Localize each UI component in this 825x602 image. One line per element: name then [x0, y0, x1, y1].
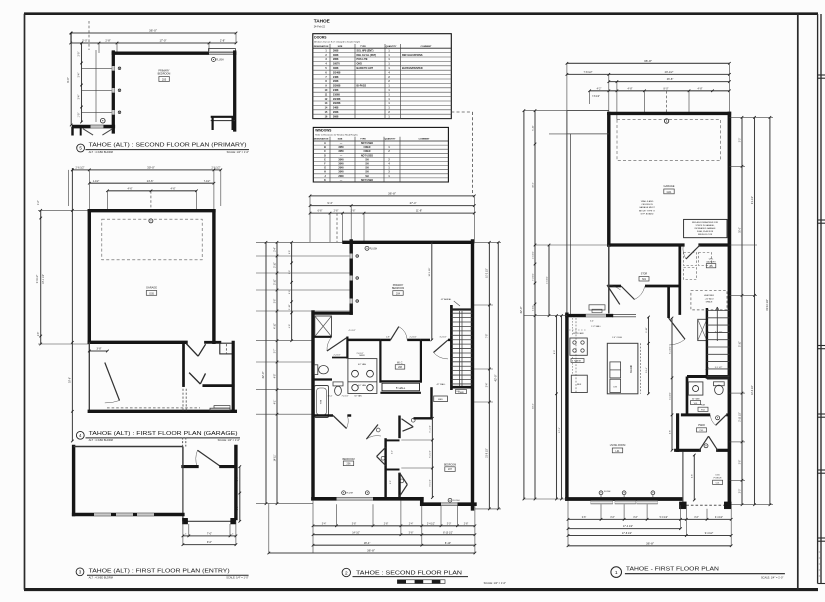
plan2 bottom wall step — [422, 499, 475, 506]
svg-text:2'-6 1/2": 2'-6 1/2" — [212, 167, 221, 170]
svg-text:36'-8": 36'-8" — [646, 541, 654, 545]
plan5 railing bottom right — [211, 117, 235, 130]
svg-text:1-1/2": 1-1/2" — [93, 180, 100, 183]
svg-text:5'-0 1/2": 5'-0 1/2" — [660, 517, 668, 519]
svg-text:TAHOE (ALT) : SECOND FLOOR PLA: TAHOE (ALT) : SECOND FLOOR PLAN (PRIMARY… — [89, 143, 247, 149]
plan4 mudroom left wall — [182, 344, 185, 386]
svg-text:3'-8": 3'-8" — [96, 347, 101, 351]
svg-text:2'-8 1/2": 2'-8 1/2" — [356, 353, 363, 355]
svg-text:MED: MED — [438, 399, 443, 401]
svg-text:3'-6 1/2": 3'-6 1/2" — [430, 479, 432, 487]
svg-text:3'-1 1/2": 3'-1 1/2" — [715, 367, 723, 369]
plan1 hvac dashed box — [691, 291, 727, 310]
svg-text:18'-4": 18'-4" — [364, 541, 371, 545]
svg-text:STOR: STOR — [641, 274, 648, 276]
svg-text:3'-3": 3'-3" — [289, 290, 291, 294]
svg-text:3'-6": 3'-6" — [610, 517, 615, 519]
plan2 bottom dims row A — [312, 523, 477, 527]
plan4 steps to house — [210, 406, 230, 411]
plan1 left dim col I — [519, 109, 525, 500]
plan2 wic walls — [380, 340, 421, 383]
plan1 util label — [706, 259, 716, 268]
svg-text:W.I.C.: W.I.C. — [397, 363, 403, 365]
svg-text:4'-6": 4'-6" — [127, 186, 132, 190]
plan1 garage note text — [639, 200, 656, 215]
plan5 windows on left wall — [112, 66, 121, 115]
plan1 top dim row4 — [567, 63, 731, 119]
svg-text:TYPE: TYPE — [360, 46, 366, 48]
svg-text:SH: SH — [365, 168, 369, 170]
plan1 cvd porch label — [713, 474, 723, 484]
svg-text:2468: 2468 — [333, 76, 339, 79]
plan2 hall doors to bedrooms — [366, 418, 415, 439]
svg-text:7'-0": 7'-0" — [207, 532, 212, 536]
svg-text:FLUSH: FLUSH — [453, 500, 460, 502]
plan1 west wall — [565, 314, 568, 499]
svg-text:2: 2 — [345, 570, 348, 575]
svg-text:17'-4 1/2": 17'-4 1/2" — [623, 525, 633, 528]
svg-text:TAHOE (ALT) : FIRST FLOOR PLAN: TAHOE (ALT) : FIRST FLOOR PLAN (GARAGE) — [89, 431, 238, 437]
svg-text:2/2468: 2/2468 — [333, 98, 341, 101]
svg-text:2468: 2468 — [333, 89, 339, 92]
svg-text:9'-4": 9'-4" — [327, 201, 332, 205]
svg-text:4'-1/2": 4'-1/2" — [532, 305, 534, 311]
svg-text:4'-8": 4'-8" — [274, 374, 276, 379]
svg-text:30'-6": 30'-6" — [739, 227, 741, 233]
plan4 garage right wall — [212, 211, 215, 343]
plan4 bifold chevron top — [186, 344, 205, 357]
svg-text:SCALE: 1/4" = 1'-0": SCALE: 1/4" = 1'-0" — [227, 150, 249, 154]
plan4 left inner dimension — [37, 200, 89, 345]
plan4 garage top wall — [89, 209, 214, 212]
svg-text:2'-0": 2'-0" — [392, 450, 394, 454]
svg-text:26'-8": 26'-8" — [667, 77, 674, 81]
title 5 — [77, 143, 249, 154]
svg-text:3050: 3050 — [338, 151, 344, 153]
svg-text:G05: G05 — [149, 292, 154, 295]
plan1 right dim col F — [752, 116, 756, 506]
svg-text:7-8 1/2": 7-8 1/2" — [592, 96, 600, 98]
svg-text:FIXED: FIXED — [364, 147, 371, 149]
svg-text:3068: 3068 — [333, 67, 339, 70]
svg-text:43'-10 1/2": 43'-10 1/2" — [766, 299, 769, 311]
svg-text:7-1/2": 7-1/2" — [204, 180, 211, 183]
svg-text:60" VAN: 60" VAN — [358, 384, 366, 387]
svg-text:3'-6": 3'-6" — [694, 517, 699, 519]
plan4 lower left wall — [88, 342, 90, 411]
plan1 right dim col H — [729, 117, 773, 504]
svg-text:+22" ADU: +22" ADU — [705, 297, 714, 300]
sheet border left — [24, 14, 26, 590]
svg-text:TAHOE : SECOND FLOOR PLAN: TAHOE : SECOND FLOOR PLAN — [356, 570, 462, 576]
svg-text:3'-4 1/2": 3'-4 1/2" — [37, 275, 39, 284]
plan2 chase walls between bedrooms — [386, 416, 400, 499]
svg-text:3'-8": 3'-8" — [409, 532, 414, 534]
svg-text:3040: 3040 — [338, 158, 344, 161]
plan5 closet fold lines — [83, 129, 113, 135]
svg-text:3'-0": 3'-0" — [237, 506, 239, 511]
plan1 pwdr label — [697, 425, 707, 432]
plan1 left dim col L — [524, 111, 609, 501]
svg-text:SLAB, PLAN FOR: SLAB, PLAN FOR — [697, 230, 714, 233]
plan1 understair closet — [698, 319, 707, 340]
plan1 kitchen counter dashed — [569, 318, 601, 393]
svg-text:GARAGE: GARAGE — [664, 184, 675, 188]
plan5 second dimension row — [69, 33, 237, 53]
svg-text:3'-6": 3'-6" — [739, 460, 741, 465]
plan5 left wall — [112, 52, 115, 132]
svg-text:3'-4": 3'-4" — [79, 95, 81, 100]
svg-text:7'-6 1/2": 7'-6 1/2" — [341, 396, 348, 398]
plan2 wic door — [391, 327, 408, 340]
svg-text:PRIMARY: PRIMARY — [393, 284, 404, 287]
svg-text:2068: 2068 — [333, 80, 339, 83]
plan1 left dim col K — [546, 244, 550, 317]
plan2 tub — [315, 386, 329, 418]
svg-text:MIRR: MIRR — [359, 355, 365, 357]
svg-text:3068: 3068 — [333, 49, 339, 52]
svg-text:4'-8": 4'-8" — [628, 87, 633, 90]
svg-text:SH: SH — [365, 164, 369, 166]
svg-text:2'-8": 2'-8" — [334, 211, 339, 213]
svg-text:FLUSH: FLUSH — [346, 493, 353, 495]
svg-text:MICRO ABV: MICRO ABV — [573, 332, 584, 335]
svg-text:9'-0": 9'-0" — [554, 350, 556, 354]
plan4 top dimension row 3 — [69, 170, 221, 211]
plan1 understair door — [669, 286, 685, 345]
svg-text:2'-4 1/2": 2'-4 1/2" — [409, 337, 416, 339]
title 3 — [76, 568, 249, 580]
svg-text:REF AG03 DRAWINGS FOR: REF AG03 DRAWINGS FOR — [692, 221, 719, 224]
plan4 left outer dimension — [70, 168, 74, 442]
plan2 interior dim line bedroom — [429, 241, 433, 341]
svg-text:2'-6 1/2": 2'-6 1/2" — [76, 167, 85, 170]
svg-text:5'-10": 5'-10" — [739, 341, 741, 347]
plan2 42in wall label and med box — [434, 298, 460, 401]
sheet border right — [797, 14, 799, 590]
svg-text:3'-0": 3'-0" — [739, 138, 741, 143]
plan1 hall dim line — [669, 317, 673, 452]
svg-text:42" AERIAL: 42" AERIAL — [441, 298, 452, 301]
svg-text:5'-4 1/2": 5'-4 1/2" — [669, 346, 671, 354]
plan1 island — [607, 337, 640, 394]
plan4 top dimension row 2 — [88, 179, 215, 185]
svg-text:LIVING ROOM: LIVING ROOM — [610, 445, 626, 447]
svg-text:QUANTITY: QUANTITY — [386, 45, 397, 48]
plan1 washer dryer dashed — [684, 253, 712, 280]
plan4 garage label — [146, 286, 157, 296]
svg-text:2'-10 1/2": 2'-10 1/2" — [739, 412, 741, 422]
plan1 bottom dims row A — [567, 517, 733, 521]
svg-text:NOT USED: NOT USED — [361, 143, 373, 145]
svg-text:BARN TO LMT: BARN TO LMT — [357, 67, 374, 70]
svg-text:9'-1 1/2": 9'-1 1/2" — [752, 196, 754, 204]
plan3 right wall — [234, 447, 237, 519]
plan1 bottom windows — [591, 501, 658, 504]
plan2 bottom wall left with window — [313, 497, 422, 500]
svg-text:DBL 1/2 GL (PAT): DBL 1/2 GL (PAT) — [357, 54, 377, 57]
svg-text:9'-0": 9'-0" — [66, 77, 70, 83]
svg-text:CVD: CVD — [715, 474, 720, 476]
plan1 east wall — [728, 113, 732, 502]
plan2 shower — [315, 316, 332, 337]
plan2 bath tiny dims — [328, 330, 447, 398]
svg-text:14'-6": 14'-6" — [147, 179, 154, 183]
plan3 top line — [74, 446, 183, 448]
svg-text:2'-0": 2'-0" — [390, 480, 392, 484]
svg-text:8'-10": 8'-10" — [445, 542, 451, 545]
plan2 closet door to bedroom3 — [400, 473, 408, 497]
svg-text:2'-4": 2'-4" — [274, 247, 276, 252]
svg-text:16'-4 1/2": 16'-4 1/2" — [752, 385, 754, 395]
plan2 bottom dims row B — [312, 531, 477, 536]
plan1 living room label — [610, 445, 626, 453]
svg-text:21'-8 1/2": 21'-8 1/2" — [487, 448, 489, 458]
svg-text:1'-6": 1'-6" — [38, 332, 40, 337]
plan2 top wall — [344, 241, 473, 244]
plan4 top dimension row 1 — [71, 166, 222, 172]
plan1 centerline dashed — [666, 91, 668, 113]
svg-text:TYPE: TYPE — [360, 139, 366, 141]
title 1 — [611, 566, 785, 579]
svg-text:NOT USED: NOT USED — [361, 155, 373, 157]
plan2 west bedroom wall with windows — [350, 241, 359, 313]
svg-text:POS LITE: POS LITE — [357, 58, 368, 61]
svg-text:SPACE: SPACE — [706, 301, 713, 304]
plan2 below-stairs wall — [452, 386, 473, 389]
svg-text:DESIGNATION: DESIGNATION — [314, 138, 329, 141]
plan2 flush marker — [365, 246, 377, 250]
svg-text:'WALLS AND: 'WALLS AND — [641, 200, 654, 203]
plan2 centerline dashed — [336, 213, 338, 242]
plan2 bath walls — [313, 337, 347, 380]
svg-text:3'-1 1/2": 3'-1 1/2" — [715, 331, 723, 333]
plan1 patio door leaf — [607, 285, 621, 304]
svg-text:2'-6 1/2": 2'-6 1/2" — [546, 276, 548, 284]
title 2 — [342, 568, 506, 585]
svg-text:LAUNDRY: LAUNDRY — [706, 260, 716, 263]
svg-text:SIZE: SIZE — [338, 46, 343, 48]
svg-text:9'-0": 9'-0" — [207, 540, 212, 544]
svg-text:42'-0": 42'-0" — [261, 371, 265, 378]
svg-text:2'-4 1/2": 2'-4 1/2" — [333, 355, 340, 357]
plan1 garage flush marker — [664, 119, 668, 123]
svg-text:3'-6": 3'-6" — [582, 517, 587, 519]
svg-text:1'-8": 1'-8" — [79, 113, 81, 118]
plan4 lower door with arc — [105, 363, 120, 403]
title 4 — [76, 431, 240, 442]
svg-text:SH: SH — [365, 172, 369, 174]
plan2 east wall — [471, 241, 474, 509]
svg-text:2'-8": 2'-8" — [464, 523, 469, 525]
plan2 vanity with sinks — [348, 355, 377, 393]
plan4 dashed passage below mudroom — [183, 389, 186, 411]
windows schedule table — [313, 127, 448, 182]
svg-text:3040: 3040 — [338, 171, 344, 174]
svg-text:2030: 2030 — [338, 176, 344, 178]
plan1 fridge — [571, 375, 587, 392]
svg-text:3'-0": 3'-0" — [447, 523, 452, 525]
svg-text:6'-4 1/2": 6'-4 1/2" — [430, 450, 432, 458]
plan2 left dim inner — [256, 241, 351, 505]
plan1 foyer south wall with front door — [676, 436, 730, 450]
plan1 bottom flush markers — [599, 491, 655, 498]
plan1 rear patio outline — [567, 111, 609, 315]
plan5 left dimension 9'-0 — [66, 32, 72, 127]
svg-text:3'-7": 3'-7" — [274, 349, 276, 354]
plan4 right lower wall — [232, 342, 235, 411]
svg-text:Refer to Elevations for Window: Refer to Elevations for Window Head Heig… — [315, 134, 358, 137]
svg-text:BI-PASS/PAINTED: BI-PASS/PAINTED — [402, 67, 423, 70]
plan1 powder bottom wall with door — [681, 415, 730, 425]
svg-text:13'-4": 13'-4" — [646, 367, 648, 373]
svg-text:3'-4 1/2": 3'-4 1/2" — [715, 517, 723, 519]
svg-text:2868: 2868 — [333, 58, 339, 61]
plan4 garage left wall — [88, 211, 91, 343]
svg-text:14'-10": 14'-10" — [352, 531, 360, 534]
plan2 bedroom3 north wall — [414, 387, 432, 418]
svg-text:3'-1 1/2": 3'-1 1/2" — [430, 425, 432, 433]
plan2 right dims — [473, 241, 502, 510]
svg-text:DW: DW — [614, 387, 617, 389]
svg-text:QUANTITY: QUANTITY — [385, 138, 396, 141]
svg-text:5' HALL: 5' HALL — [396, 386, 406, 390]
plan3 entry door swing — [196, 450, 221, 466]
svg-text:2'-8": 2'-8" — [384, 523, 389, 525]
svg-text:42" WALL: 42" WALL — [437, 383, 447, 386]
plan3 porch front edge — [183, 520, 236, 522]
plan2 top dim row1 36'-8 — [309, 192, 476, 198]
plan2 flush window markers bottom — [342, 491, 460, 502]
svg-text:36'-8": 36'-8" — [367, 549, 375, 553]
plan5 top wall — [113, 52, 234, 55]
svg-text:G01: G01 — [667, 191, 672, 194]
plan2 bottom dims row D — [268, 500, 477, 554]
plan3 porch west edge — [182, 447, 184, 519]
svg-text:BEDROOM: BEDROOM — [392, 288, 404, 290]
svg-text:BI-PASS: BI-PASS — [357, 85, 367, 88]
svg-text:205: 205 — [162, 77, 167, 81]
svg-text:4'-8": 4'-8" — [289, 324, 291, 328]
plan2 closet door to bedroom2 — [377, 447, 386, 465]
svg-text:FUR: FUR — [701, 405, 706, 407]
svg-text:60" VAN: 60" VAN — [354, 395, 362, 398]
svg-text:10'-2 1/2": 10'-2 1/2" — [487, 268, 489, 278]
svg-text:3'-4": 3'-4" — [322, 523, 327, 525]
plan2 hall linen box — [382, 383, 420, 391]
svg-text:21068: 21068 — [333, 93, 340, 96]
svg-text:COMMENT: COMMENT — [421, 46, 433, 48]
plan1 cased opening by kitchen — [612, 315, 636, 317]
plan3 porch right dim — [237, 465, 241, 522]
svg-text:30'-6": 30'-6" — [532, 182, 534, 188]
svg-text:FLUSH: FLUSH — [370, 248, 378, 250]
svg-text:16070: 16070 — [333, 63, 340, 66]
svg-text:WINDOWS: WINDOWS — [315, 129, 332, 133]
svg-text:8'-10 1/2": 8'-10 1/2" — [443, 532, 453, 534]
plan1 bottom dims row B — [567, 525, 682, 530]
svg-text:36'-8": 36'-8" — [388, 192, 396, 196]
svg-text:2'-8": 2'-8" — [386, 337, 390, 339]
plan2 hall linen walls — [380, 381, 421, 393]
svg-text:FLUSH: FLUSH — [216, 59, 224, 61]
plan1 garage label — [664, 184, 675, 194]
plan1 stor label — [639, 274, 649, 282]
svg-text:UTIL: UTIL — [709, 259, 714, 261]
svg-text:All doors that are 8'-0" enlar: All doors that are 8'-0" enlarged to hea… — [314, 41, 360, 44]
plan5 window on top wall — [209, 49, 236, 55]
plan4 mudroom top wall segments — [206, 341, 220, 344]
svg-text:SCALE: 1/4" = 1'-0": SCALE: 1/4" = 1'-0" — [218, 438, 240, 442]
svg-text:ALT : 4 3-BD BLDRM: ALT : 4 3-BD BLDRM — [89, 438, 113, 442]
plan1 foyer west wall — [676, 415, 679, 450]
svg-text:1'-3" WALL: 1'-3" WALL — [591, 325, 601, 328]
svg-text:FIXED: FIXED — [364, 151, 371, 153]
svg-text:PORCH: PORCH — [714, 478, 722, 480]
svg-text:3'-4 1/2": 3'-4 1/2" — [439, 337, 446, 339]
plan1 powder top wall — [687, 377, 729, 415]
svg-text:17'-8 1/2": 17'-8 1/2" — [622, 532, 632, 535]
plan2 primary bedroom label — [392, 284, 404, 296]
svg-text:2'-10": 2'-10" — [274, 279, 276, 285]
plan2 interior dim line bedroom3 — [401, 417, 433, 499]
svg-text:RANGE: RANGE — [574, 360, 582, 363]
svg-text:2068: 2068 — [333, 111, 339, 114]
plan2 wc toilet — [314, 365, 328, 375]
plan1 garage note box — [684, 219, 727, 237]
svg-text:G: G — [324, 168, 326, 170]
svg-text:BEDROOM: BEDROOM — [342, 459, 354, 461]
plan2 left dim 42'-0 — [261, 241, 267, 505]
svg-text:COMMENT: COMMENT — [419, 139, 431, 141]
svg-text:SCALE: 1/4" = 1'-0": SCALE: 1/4" = 1'-0" — [761, 575, 783, 579]
plan5 room label PRIMARY BEDROOM — [158, 70, 171, 82]
svg-text:1'-6": 1'-6" — [38, 200, 40, 205]
plan3 bottom wall with windows — [74, 513, 183, 516]
svg-text:60" VAN: 60" VAN — [358, 363, 366, 366]
plan1 garage attic dashed outline — [617, 120, 721, 161]
svg-text:36'-8": 36'-8" — [644, 59, 652, 63]
svg-text:10'-2 1/2": 10'-2 1/2" — [429, 267, 431, 276]
right title-block strip — [818, 14, 825, 584]
svg-text:42'-0": 42'-0" — [494, 374, 498, 381]
plan1 stor east wall — [678, 245, 681, 314]
svg-text:BEDROOM: BEDROOM — [158, 73, 171, 76]
plan2 stairs — [451, 305, 473, 394]
svg-text:10'-1 1/2": 10'-1 1/2" — [43, 274, 45, 284]
svg-text:17'-0": 17'-0" — [159, 39, 166, 43]
plan5 top dimension 36'-0 — [69, 29, 237, 35]
plan1 top dim row1 36'-8 — [566, 59, 731, 65]
svg-text:6'-8": 6'-8" — [318, 211, 323, 213]
svg-text:ALT : 4 3-BD BLDRM: ALT : 4 3-BD BLDRM — [89, 150, 113, 154]
plan1 fur label — [698, 405, 708, 412]
svg-text:BEDROOM: BEDROOM — [444, 465, 456, 467]
plan1 kitchen dim line — [646, 316, 650, 395]
svg-text:REF: REF — [577, 384, 582, 386]
plan5 flush beam marker — [212, 58, 224, 62]
doors schedule table — [313, 34, 452, 119]
svg-text:3'-6": 3'-6" — [274, 299, 276, 304]
svg-text:30'-0": 30'-0" — [147, 166, 155, 170]
svg-text:5'-8": 5'-8" — [669, 430, 671, 434]
svg-text:2468: 2468 — [333, 107, 339, 110]
svg-text:BE 5/8" TYPE 'X': BE 5/8" TYPE 'X' — [639, 210, 656, 212]
plan4 bottom wall — [89, 408, 235, 411]
svg-text:4'-8": 4'-8" — [698, 87, 703, 90]
plan1 garage west wall — [607, 113, 610, 245]
plan5 closet wall with window — [72, 118, 115, 135]
